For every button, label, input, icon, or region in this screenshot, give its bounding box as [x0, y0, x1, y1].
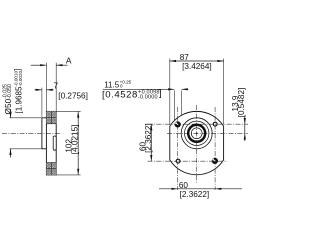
- svg-text:60: 60: [179, 181, 189, 190]
- svg-text:[2.3622]: [2.3622]: [180, 190, 210, 199]
- svg-text:Ø50-0.025-0.050: Ø50-0.025-0.050: [3, 84, 13, 115]
- svg-text:[1.9685-0.0010-0.0020]: [1.9685-0.0010-0.0020]: [13, 69, 24, 114]
- svg-text:A: A: [66, 55, 72, 65]
- svg-text:[4.0215]: [4.0215]: [71, 125, 80, 155]
- svg-text:[0.2756]: [0.2756]: [58, 91, 88, 100]
- svg-text:[2.3622]: [2.3622]: [144, 123, 153, 153]
- svg-text:7: 7: [54, 81, 59, 90]
- svg-text:[3.4264]: [3.4264]: [182, 62, 212, 71]
- svg-text:[0.5482]: [0.5482]: [237, 88, 246, 118]
- svg-text:[0.4528+0.0098-0.0000]: [0.4528+0.0098-0.0000]: [102, 88, 162, 101]
- svg-text:87: 87: [180, 53, 190, 62]
